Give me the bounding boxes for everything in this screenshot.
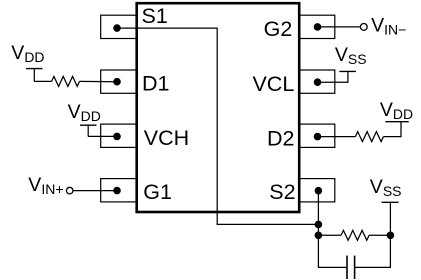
svg-text:VSS: VSS	[370, 176, 402, 199]
svg-text:VDD: VDD	[68, 101, 101, 124]
svg-text:VCH: VCH	[144, 126, 189, 150]
svg-text:D1: D1	[142, 72, 169, 96]
pin dot G1	[113, 187, 121, 195]
resistor R1	[52, 76, 80, 86]
svg-text:VCL: VCL	[252, 72, 294, 96]
pin label S2	[269, 180, 295, 204]
terminal circle VIN+	[66, 187, 73, 194]
pin box D2	[299, 124, 335, 147]
resistor R2	[355, 132, 383, 142]
pin dot G2	[314, 23, 322, 31]
svg-text:G2: G2	[264, 17, 293, 41]
label VDD (at VCH)	[68, 101, 101, 124]
wire pin S2 down to node B	[317, 191, 319, 236]
wire node B down to capacitor C1	[318, 235, 346, 267]
wire capacitor C1 to node C	[355, 235, 390, 267]
wire VIN+ to pin G1	[73, 190, 117, 192]
pin label VCH	[144, 126, 189, 150]
pin box D1	[101, 70, 137, 93]
wire VDD to resistor R1	[34, 80, 51, 82]
junction node C	[387, 232, 395, 240]
pin dot VCL	[314, 78, 322, 86]
wire pin VCL to VSS	[318, 71, 348, 82]
label VSS (at VCL)	[335, 44, 367, 67]
supply VSS (at VCL)	[339, 70, 356, 72]
terminal circle VIN-	[360, 24, 367, 31]
svg-text:VSS: VSS	[335, 44, 367, 67]
pin label G1	[143, 180, 172, 204]
svg-text:S1: S1	[142, 4, 168, 28]
svg-text:VIN+: VIN+	[28, 174, 63, 197]
pin box S2	[299, 179, 335, 202]
pin label G2	[264, 17, 293, 41]
wire R3 to node C	[369, 234, 390, 236]
svg-text:S2: S2	[269, 180, 295, 204]
pin dot S2	[315, 187, 323, 195]
label VDD (top left)	[11, 42, 44, 65]
pin box G1	[101, 179, 137, 202]
wire pin D2 to resistor R2	[318, 136, 356, 138]
wire R1 to pin D1	[80, 80, 118, 82]
IC package U1	[137, 3, 300, 212]
wire R2 to VDD	[383, 122, 401, 137]
svg-text:D2: D2	[267, 126, 294, 150]
pin label D1	[142, 72, 169, 96]
pin label D2	[267, 126, 294, 150]
svg-text:G1: G1	[143, 180, 172, 204]
supply VSS (at S2)	[382, 201, 399, 203]
label VSS (at S2)	[370, 176, 402, 199]
pin label S1	[142, 4, 168, 28]
label VIN-	[371, 15, 406, 38]
supply VDD (top left)	[26, 69, 43, 82]
wire pin G2 to VIN- terminal	[318, 26, 361, 28]
svg-text:VIN−: VIN−	[371, 15, 406, 38]
junction node B	[315, 232, 323, 240]
pin dot VCH	[113, 133, 121, 141]
wire node C to VSS	[389, 202, 391, 235]
supply VDD (at D2)	[385, 121, 408, 123]
wire S1 internal route to node A	[117, 28, 318, 224]
label VIN+	[28, 174, 63, 197]
svg-text:VDD: VDD	[11, 42, 44, 65]
wire node B to resistor R3	[318, 234, 341, 236]
pin dot D1	[113, 78, 121, 86]
wire VDD to pin VCH	[88, 135, 117, 137]
pin label VCL	[252, 72, 294, 96]
junction node A	[315, 221, 323, 229]
resistor R3	[341, 230, 369, 240]
pin box G2	[299, 15, 335, 38]
capacitor C1	[347, 256, 355, 279]
supply VDD (at VCH)	[80, 125, 97, 136]
pin box VCL	[299, 70, 335, 93]
pin box VCH	[101, 124, 137, 147]
pin dot S1	[113, 24, 121, 32]
pin dot D2	[314, 133, 322, 141]
pin box S1	[101, 15, 137, 38]
svg-text:VDD: VDD	[380, 99, 413, 122]
label VDD (at D2)	[380, 99, 413, 122]
